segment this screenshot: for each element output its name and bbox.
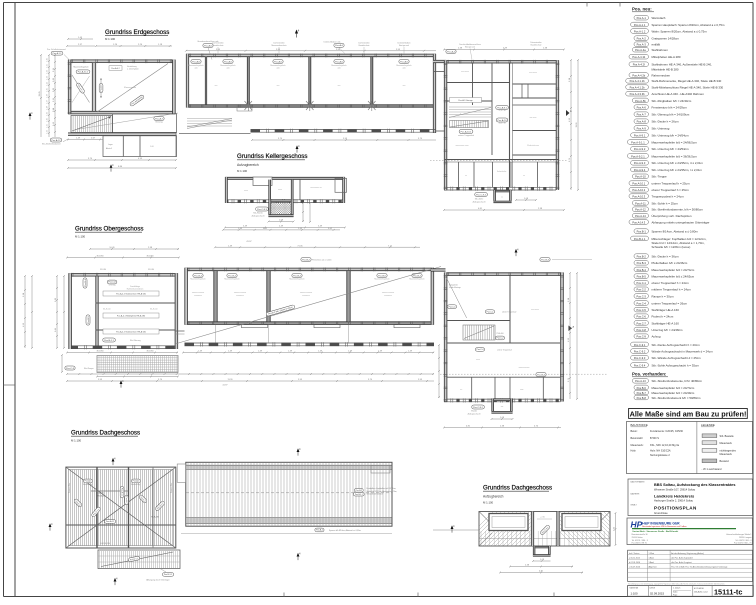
svg-text:Aufzugbereich: Aufzugbereich xyxy=(483,495,504,499)
OG long diagonal xyxy=(175,267,441,345)
ED band separator wall xyxy=(309,57,312,105)
svg-text:Pos.A-5: Pos.A-5 xyxy=(204,44,213,47)
svg-text:Pos.C-3: Pos.C-3 xyxy=(66,368,75,370)
svg-text:Grundriss Erdgeschoss: Grundriss Erdgeschoss xyxy=(105,29,169,36)
svg-text:Pos.B-2: Pos.B-2 xyxy=(302,259,311,261)
svg-text:Walm: Sparren 8/20cm, Abstand: Walm: Sparren 8/20cm, Abstand a ≤ 0,75m xyxy=(652,29,708,33)
svg-text:Stb.-Treppe: Stb.-Treppe xyxy=(652,175,668,179)
svg-text:Mauerwerkspfeiler b/d = 24/49c: Mauerwerkspfeiler b/d = 24/49cm xyxy=(652,391,695,395)
svg-text:Pos.A-11: Pos.A-11 xyxy=(635,201,646,205)
svg-text:Schwelle b/h 12/8cm: Schwelle b/h 12/8cm xyxy=(367,494,384,496)
ED dims right of shaft xyxy=(516,199,536,201)
svg-text:PS.A 160: PS.A 160 xyxy=(496,332,503,335)
svg-text:Pos.A-9: Pos.A-9 xyxy=(637,126,647,130)
svg-text:Pos.A-9.1: Pos.A-9.1 xyxy=(634,134,646,138)
svg-text:Pos.A-2: Pos.A-2 xyxy=(125,497,128,504)
north arrows DG band xyxy=(297,448,302,455)
svg-text:Pos.A-9.1: Pos.A-9.1 xyxy=(497,106,507,109)
svg-text:Tel. 05191 / 986 - 3: Tel. 05191 / 986 - 3 xyxy=(632,540,648,542)
svg-text:Pos.A-4.1.1: Pos.A-4.1.1 xyxy=(78,71,89,74)
DG2 right dim xyxy=(615,513,617,545)
svg-text:Pos.A-3: Pos.A-3 xyxy=(637,43,647,47)
svg-text:Pos.A-1.1: Pos.A-1.1 xyxy=(120,488,123,496)
svg-text:Sparren-Rtg.: Sparren-Rtg. xyxy=(68,482,71,493)
svg-text:Pos.A-8: Pos.A-8 xyxy=(637,120,647,124)
svg-text:Stb.-Streifenfundament: Stb.-Streifenfundament xyxy=(42,143,61,146)
svg-text:xxxxxxxxx: xxxxxxxxx xyxy=(194,295,202,297)
svg-text:oberer Treppenlauf h = 24cm: oberer Treppenlauf h = 24cm xyxy=(652,281,690,285)
svg-text:Mauerwerksgefach: Mauerwerksgefach xyxy=(74,67,89,69)
svg-text:Anschluss HE-A 340 - HE-A340 R: Anschluss HE-A 340 - HE-A340 Rahmen xyxy=(652,92,705,96)
svg-text:unterer Treppenlauf: unterer Treppenlauf xyxy=(497,348,512,351)
svg-text:Pos.A-10.3: Pos.A-10.3 xyxy=(632,195,645,199)
svg-text:35.8.80: 35.8.80 xyxy=(100,269,106,271)
svg-text:Stb.-Wände Aufzugsschacht d =: Stb.-Wände Aufzugsschacht d = 25cm xyxy=(652,356,702,360)
svg-text:xxx xxxx: xxx xxxx xyxy=(530,117,537,119)
svg-text:xxxxxxx xxxxxxx: xxxxxxx xxxxxxx xyxy=(192,292,204,294)
svg-text:xxxxxxxxxx xx: xxxxxxxxxx xx xyxy=(310,187,321,189)
svg-text:Pos.C-9.2: Pos.C-9.2 xyxy=(473,407,484,409)
svg-text:1.21: 1.21 xyxy=(47,124,49,128)
svg-text:Schwelle b/h = 12/8cm (loose): Schwelle b/h = 12/8cm (loose) xyxy=(652,245,691,249)
svg-text:M 1:100: M 1:100 xyxy=(105,37,116,41)
svg-text:Stb.-Decke Aufzugsschacht h =: Stb.-Decke Aufzugsschacht h = 20cm xyxy=(652,343,701,347)
svg-text:Pos.C-2: Pos.C-2 xyxy=(637,288,647,292)
svg-text:Pos.B-2: Pos.B-2 xyxy=(637,255,647,259)
KG dims xyxy=(269,221,294,223)
svg-text:Stb.-Unterzug: Stb.-Unterzug xyxy=(652,126,670,130)
svg-text:Mauerwerk: Mauerwerk xyxy=(720,442,733,445)
svg-text:Aufzug: Aufzug xyxy=(652,335,661,339)
svg-text:1.25: 1.25 xyxy=(47,88,49,92)
north arrow left margin ED xyxy=(29,112,34,119)
ED left block outer walls xyxy=(68,60,176,63)
svg-text:29396 Langein: 29396 Langein xyxy=(739,537,752,539)
svg-text:Aufzugbereich: Aufzugbereich xyxy=(237,163,259,167)
svg-text:Pos.A-5: Pos.A-5 xyxy=(400,60,409,63)
svg-text:Stb.-Überzug: Stb.-Überzug xyxy=(130,339,141,342)
svg-text:für die Montage: für die Montage xyxy=(449,286,461,289)
svg-text:Dämmstreifen: Dämmstreifen xyxy=(530,41,541,44)
OG far left dim chain xyxy=(24,276,26,348)
svg-text:Pos.A-4: Pos.A-4 xyxy=(447,50,456,53)
svg-text:1.HO.B-280: 1.HO.B-280 xyxy=(96,495,106,497)
svg-text:Pos.A-9.2: Pos.A-9.2 xyxy=(634,147,646,151)
svg-text:Art der Änderung / Ergänzung (: Art der Änderung / Ergänzung (Anlass) xyxy=(671,552,704,555)
svg-text:1.26: 1.26 xyxy=(47,94,49,98)
svg-text:Mauerwerkspfeiler b/d = 36/36,: Mauerwerkspfeiler b/d = 36/36,5cm xyxy=(652,154,698,158)
svg-text:Pos.A-4.2 Stahlrahmen HE-A 3: Pos.A-4.2 Stahlrahmen HE-A 340 xyxy=(116,293,147,296)
ED staircase xyxy=(71,116,112,133)
svg-text:Pos.A-5b: Pos.A-5b xyxy=(635,99,646,103)
svg-text:Grundriss Dachgeschoss: Grundriss Dachgeschoss xyxy=(71,430,140,437)
svg-text:Stb.-Unterzug b/h = 24/54cm: Stb.-Unterzug b/h = 24/54cm xyxy=(652,134,690,138)
materials box xyxy=(627,422,753,474)
svg-text:INHALT: INHALT xyxy=(631,504,638,507)
svg-text:Pos.B-5: Pos.B-5 xyxy=(637,275,647,279)
svg-text:Pos.A-4.1: Pos.A-4.1 xyxy=(106,520,114,523)
svg-text:Pos.A-4.2f: Pos.A-4.2f xyxy=(633,63,645,67)
svg-text:13.11: 13.11 xyxy=(576,122,578,128)
company box with HP logo xyxy=(627,518,753,545)
DG band dashed centre line xyxy=(186,492,392,494)
north arrow above ED band xyxy=(295,28,300,37)
svg-text:Stb.-Ringbalken b/h = 24/30cm: Stb.-Ringbalken b/h = 24/30cm xyxy=(652,99,692,103)
DG band bottom annotation line xyxy=(181,533,392,535)
svg-text:xxxx: xxxx xyxy=(520,389,524,391)
svg-text:Stb.-Streifenfundament b/h = 5: Stb.-Streifenfundament b/h = 50/80cm xyxy=(652,396,702,400)
DG2 corner hip diagonals xyxy=(480,512,493,525)
svg-text:Bezüge uwk: Bezüge uwk xyxy=(399,45,409,47)
OG dashed section line xyxy=(440,373,607,375)
svg-text:Mauerwerksgefach: Mauerwerksgefach xyxy=(224,279,239,281)
svg-text:1.HO.B.-280: 1.HO.B.-280 xyxy=(100,543,110,545)
svg-text:H&P INGENIEURE GbR: H&P INGENIEURE GbR xyxy=(642,521,680,525)
svg-text:Pos.C-9.2: Pos.C-9.2 xyxy=(634,349,646,353)
OG balcony hatched area xyxy=(97,356,178,373)
svg-text:Mauerwerk: Mauerwerk xyxy=(720,453,733,456)
svg-text:Stb.-Wände: Stb.-Wände xyxy=(253,212,263,215)
svg-text:Bernsteinstraße 30: Bernsteinstraße 30 xyxy=(632,533,648,536)
svg-text:Pos. Schallschutzwand: Pos. Schallschutzwand xyxy=(47,48,65,51)
svg-text:Pos.C-4: Pos.C-4 xyxy=(477,349,484,351)
svg-text:35.8.80: 35.8.80 xyxy=(148,269,154,271)
svg-text:Pos.C-8: Pos.C-8 xyxy=(108,282,116,284)
svg-text:Rahmenecken: Rahmenecken xyxy=(652,73,671,77)
svg-text:Sparren b/h 8/14cm, Abstand a: Sparren b/h 8/14cm, Abstand a ≤ 0,80m xyxy=(329,529,361,532)
svg-text:B 500 S: B 500 S xyxy=(650,437,659,440)
svg-text:Sparren Hauptdach: Sparren 8/2: Sparren Hauptdach: Sparren 8/20cm, Absta… xyxy=(652,23,726,27)
svg-text:o. Dämmplatte: o. Dämmplatte xyxy=(127,68,139,71)
svg-text:Pos.B-4: Pos.B-4 xyxy=(228,275,237,277)
OG left dims xyxy=(56,276,58,348)
DG band corner detail xyxy=(371,466,390,474)
svg-text:Sparren 8/14cm, Abstand a ≤ 0,: Sparren 8/14cm, Abstand a ≤ 0,80m xyxy=(652,230,699,234)
north arrows DG xyxy=(49,523,54,530)
svg-text:35.8.80: 35.8.80 xyxy=(97,256,105,258)
section arrow A right xyxy=(566,110,570,116)
svg-text:Pos.A-5: Pos.A-5 xyxy=(224,60,233,63)
svg-text:Mittelstiele HE-B 280: Mittelstiele HE-B 280 xyxy=(652,68,679,72)
svg-text:Werkstattraum: Werkstattraum xyxy=(527,144,539,147)
svg-text:Fundamente: C20/25, C25/30: Fundamente: C20/25, C25/30 xyxy=(650,430,684,433)
svg-text:Mauerwerkspfeiler b/d = 24/74c: Mauerwerkspfeiler b/d = 24/74cm xyxy=(652,386,695,390)
svg-text:Pos.A-1: Pos.A-1 xyxy=(637,16,647,20)
svg-text:Bauteilschutz: Bauteilschutz xyxy=(359,44,370,47)
ED band separator wall xyxy=(371,57,374,105)
DG band left connector xyxy=(177,464,186,482)
svg-text:Pos.B-7: Pos.B-7 xyxy=(637,391,647,395)
svg-text:Betonstahl:: Betonstahl: xyxy=(631,437,644,440)
svg-text:xxx xxxxx: xxx xxxxx xyxy=(531,309,539,311)
svg-text:Stb.-Sohle: Stb.-Sohle xyxy=(475,197,483,200)
svg-text:HE-A-280: HE-A-280 xyxy=(151,516,159,519)
svg-text:b 07.01.2016: b 07.01.2016 xyxy=(629,562,640,564)
svg-text:Stb.-Unterzug b/h ≤ 24/35cm, 4: Stb.-Unterzug b/h ≤ 24/35cm, 4 ≤ 2,01m xyxy=(652,161,704,165)
svg-text:41.97: 41.97 xyxy=(222,385,228,387)
green divider bar xyxy=(632,528,736,530)
svg-text:xxx: xxx xyxy=(403,85,406,87)
svg-text:35.8.80: 35.8.80 xyxy=(147,351,155,353)
svg-text:Pos.A-5: Pos.A-5 xyxy=(85,480,92,483)
svg-text:Pos.A-10: Pos.A-10 xyxy=(498,119,508,122)
svg-text:Pos.C-1: Pos.C-1 xyxy=(637,281,647,285)
ED corridor ramp detail xyxy=(187,118,232,120)
svg-text:uwk: uwk xyxy=(276,67,279,69)
ED dims above left block xyxy=(68,38,93,40)
page frame xyxy=(4,2,754,4)
svg-text:uwk: uwk xyxy=(337,67,340,69)
svg-text:Mauerwerkspfeiler b/d = 24/74c: Mauerwerkspfeiler b/d = 24/74cm xyxy=(652,268,695,272)
svg-text:Pos.B-4: Pos.B-4 xyxy=(637,268,647,272)
DG right band outer xyxy=(186,462,392,526)
svg-text:02.09.2015: 02.09.2015 xyxy=(650,591,664,595)
svg-text:Winsener Straße 107, 29614 Sol: Winsener Straße 107, 29614 Soltau xyxy=(654,487,696,491)
OG left block boxed labels xyxy=(103,291,159,296)
KG top notch xyxy=(253,176,272,186)
svg-text:41.97: 41.97 xyxy=(246,241,252,243)
svg-text:35.8.80: 35.8.80 xyxy=(147,256,155,258)
ED right block top dim xyxy=(444,49,564,51)
DG2 plan xyxy=(479,512,610,547)
legend swatches xyxy=(702,434,717,438)
svg-text:Pos.A-1.1: Pos.A-1.1 xyxy=(634,23,646,27)
ED band separator wall xyxy=(247,57,250,105)
svg-text:Stb.-Sohle h = 25cm: Stb.-Sohle h = 25cm xyxy=(652,201,679,205)
DG roof tags xyxy=(73,498,82,507)
svg-text:35.-B.-50: 35.-B.-50 xyxy=(103,308,110,310)
ED elevator shaft below right block xyxy=(494,190,512,192)
svg-text:xxx: xxx xyxy=(338,85,341,87)
svg-text:alle Pos. Aufst.3 ergänzt: alle Pos. Aufst.3 ergänzt xyxy=(671,561,692,564)
svg-text:x.x: x.x xyxy=(460,389,462,391)
svg-text:1.22: 1.22 xyxy=(47,70,49,74)
svg-text:16,5 / 16: 16,5 / 16 xyxy=(499,123,506,125)
svg-text:Mauerwerk:: Mauerwerk: xyxy=(631,444,644,447)
svg-text:Mauerwerksgefach: Mauerwerksgefach xyxy=(374,279,389,281)
bottom title row with plan number xyxy=(628,586,754,597)
svg-text:Pos.B-1: Pos.B-1 xyxy=(316,530,323,532)
svg-text:Landkreis Heidekreis: Landkreis Heidekreis xyxy=(654,494,695,499)
OG top-left room diagonal xyxy=(447,278,467,318)
svg-text:+ 2.15: + 2.15 xyxy=(540,517,545,519)
svg-text:mittlerer Treppenlauf h = 24cm: mittlerer Treppenlauf h = 24cm xyxy=(652,288,692,292)
svg-text:Stb.-Decke h = 26cm: Stb.-Decke h = 26cm xyxy=(652,120,680,124)
svg-text:c 05.07.2016: c 05.07.2016 xyxy=(629,566,640,568)
ED right block bottom rooms xyxy=(444,159,559,161)
svg-text:alle Pos. Aufst.3 geändert: alle Pos. Aufst.3 geändert xyxy=(671,556,693,559)
north arrow KG xyxy=(296,145,301,152)
svg-text:Pos.A-9 Garage: Pos.A-9 Garage xyxy=(458,99,473,102)
svg-text:oberer Treppenlauf h = 25cm: oberer Treppenlauf h = 25cm xyxy=(652,188,690,192)
svg-text:Pos.C-3: Pos.C-3 xyxy=(637,294,647,298)
svg-text:M 1:100: M 1:100 xyxy=(237,169,248,173)
svg-text:xx.xx: xx.xx xyxy=(244,190,248,192)
svg-text:35.-B.-50: 35.-B.-50 xyxy=(150,308,157,310)
svg-text:Pos.B-1.1: Pos.B-1.1 xyxy=(104,340,114,342)
svg-text:1.29: 1.29 xyxy=(47,112,49,116)
svg-text:1.20: 1.20 xyxy=(47,118,49,122)
svg-text:Bauteilschutz: Bauteilschutz xyxy=(213,44,224,47)
DG band rafters xyxy=(188,463,389,526)
svg-text:Nutzungsklasse 2: Nutzungsklasse 2 xyxy=(650,454,670,457)
svg-text:Bauteilschutz: Bauteilschutz xyxy=(531,44,542,47)
north arrow ED annex xyxy=(110,164,115,171)
svg-text:Stb.-Unterzug b/h ≤ 24/35cm, l: Stb.-Unterzug b/h ≤ 24/35cm, l ≤ 2,01m xyxy=(652,168,703,172)
svg-text:BBS Soltau, Aufstockung des Kl: BBS Soltau, Aufstockung des Klassentrakt… xyxy=(654,483,736,487)
svg-text:Stb.-Decke h = 36cm: Stb.-Decke h = 36cm xyxy=(652,255,680,259)
svg-text:Pos.A-7: Pos.A-7 xyxy=(155,117,164,120)
svg-text:Pos.A-10.1: Pos.A-10.1 xyxy=(632,182,645,186)
svg-text:Stb.-Unterzug b/h = 24/54cm: Stb.-Unterzug b/h = 24/54cm xyxy=(652,147,690,151)
svg-text:Holz:: Holz: xyxy=(631,450,637,453)
svg-text:Unterzug b/h = 24/48cm: Unterzug b/h = 24/48cm xyxy=(652,328,684,332)
svg-text:BAUVORHABEN: BAUVORHABEN xyxy=(631,481,645,484)
svg-text:uwk: uwk xyxy=(402,67,405,69)
svg-text:Stahlrahmen: Stahlrahmen xyxy=(652,48,669,52)
svg-text:Pos.B-4: Pos.B-4 xyxy=(194,275,203,277)
svg-text:Pos.A-10: Pos.A-10 xyxy=(635,175,646,179)
svg-text:Allgemein: Allgemein xyxy=(649,565,657,568)
svg-text:1.06: 1.06 xyxy=(150,146,154,148)
svg-text:10.49: 10.49 xyxy=(109,247,115,249)
OG left block bottom dim xyxy=(67,352,178,354)
DG heavy walls under roof xyxy=(96,467,98,548)
svg-text:29614 Soltau: 29614 Soltau xyxy=(632,536,643,539)
svg-text:Pfettenlinie uwk ± 0,00m: Pfettenlinie uwk ± 0,00m xyxy=(312,258,332,261)
svg-text:Pos.A-2: Pos.A-2 xyxy=(637,37,647,41)
OG right block stair xyxy=(463,325,495,340)
OG band separator xyxy=(267,271,271,322)
svg-text:1.Änd.: 1.Änd. xyxy=(649,556,655,559)
svg-text:Sparren-Rtg.: Sparren-Rtg. xyxy=(170,482,173,493)
ED annex rooms bottom-left xyxy=(103,136,177,157)
svg-text:Pos.B-3: Pos.B-3 xyxy=(537,374,546,376)
svg-text:uwk: uwk xyxy=(226,67,229,69)
svg-text:1.20: 1.20 xyxy=(47,58,49,62)
svg-text:156.Aufst.1 und: 156.Aufst.1 und xyxy=(694,591,707,594)
svg-text:11.99: 11.99 xyxy=(227,379,233,381)
DG2 dormer left xyxy=(489,514,528,531)
svg-text:Pos.B-3: Pos.B-3 xyxy=(541,259,550,261)
north arrow OG xyxy=(515,249,520,256)
svg-text:a 05.11.2015: a 05.11.2015 xyxy=(629,557,640,559)
svg-text:Pos.A-12: Pos.A-12 xyxy=(52,139,62,142)
svg-text:Pos.A-1.2: Pos.A-1.2 xyxy=(53,52,63,55)
OG top dimension rows xyxy=(223,229,340,231)
OG dim rows below band xyxy=(183,352,434,354)
svg-text:Pos.A-14.3: Pos.A-14.3 xyxy=(632,220,645,224)
DG2 shaft below xyxy=(533,546,551,548)
svg-text:Aufzugsschacht: Aufzugsschacht xyxy=(252,215,265,218)
svg-text:unterer Treppenlauf = 26cm: unterer Treppenlauf = 26cm xyxy=(652,301,688,305)
OG band window bays xyxy=(242,325,268,328)
ED right block room texts/tags xyxy=(450,98,482,103)
svg-text:Aufzugsschacht: Aufzugsschacht xyxy=(473,200,486,203)
svg-text:Wände: Wände xyxy=(471,411,477,413)
svg-text:xxx: xxx xyxy=(277,85,280,87)
DG2 hatch right xyxy=(540,512,666,546)
svg-text:Pos.C-9.4: Pos.C-9.4 xyxy=(634,363,646,367)
svg-text:Pos.C-9: Pos.C-9 xyxy=(637,335,647,339)
svg-text:Stb.-Sohle Aufzugsschacht h =: Stb.-Sohle Aufzugsschacht h = 35cm xyxy=(652,363,700,367)
svg-text:Pos.A-10.1: Pos.A-10.1 xyxy=(461,130,473,133)
svg-text:Gustav-Meck - Stemmener Straße: Gustav-Meck - Stemmener Straße - Bad Erl… xyxy=(632,530,678,533)
svg-text:Pos.A-9.2.1: Pos.A-9.2.1 xyxy=(631,154,645,158)
svg-text:Beratende Ingenieure VBI für B: Beratende Ingenieure VBI für Bauwesen un… xyxy=(642,525,686,528)
svg-text:xxx xxxxx: xxx xxxxx xyxy=(529,72,537,74)
svg-text:Pos.B-1: Pos.B-1 xyxy=(637,230,647,234)
svg-text:11.45: 11.45 xyxy=(39,91,41,97)
svg-text:Überprüfung vorh. Dachspitzen: Überprüfung vorh. Dachspitzen xyxy=(652,214,692,218)
section arrow A xyxy=(569,326,573,332)
svg-text:Fenstersturz b/h = 24/29cm: Fenstersturz b/h = 24/29cm xyxy=(652,106,688,110)
OG shaft dims xyxy=(492,418,513,420)
svg-text:Pos.A-7: Pos.A-7 xyxy=(637,113,647,117)
svg-text:Pos.B-5: Pos.B-5 xyxy=(88,315,90,324)
svg-text:xx: xx xyxy=(465,175,467,177)
svg-text:xxxxxxxxxx xxxx: xxxxxxxxxx xxxx xyxy=(455,145,468,147)
svg-text:Pos.A-9.3: Pos.A-9.3 xyxy=(634,161,646,165)
svg-text:Bezüge uwk: Bezüge uwk xyxy=(465,47,475,49)
svg-text:Überzug: Überzug xyxy=(155,121,162,124)
svg-text:Abfangung mittels untergebaute: Abfangung mittels untergebauten Gittertr… xyxy=(652,220,710,224)
svg-text:Pos.A-4a: Pos.A-4a xyxy=(635,48,646,52)
svg-text:1.22: 1.22 xyxy=(47,130,49,134)
KG right notch xyxy=(335,178,347,192)
svg-text:17,5 / 16: 17,5 / 16 xyxy=(499,110,506,112)
DG2 leader line xyxy=(433,529,479,531)
svg-text:Podest h = 24cm: Podest h = 24cm xyxy=(652,315,674,319)
svg-text:Pos. vorhanden:: Pos. vorhanden: xyxy=(632,372,667,377)
svg-text:BAUHERR: BAUHERR xyxy=(631,493,640,496)
svg-text:Pos.A-4.2b: Pos.A-4.2b xyxy=(632,73,645,77)
svg-text:Durchrichtbalkenanschluss: Durchrichtbalkenanschluss xyxy=(459,43,481,46)
KG elevator shaft xyxy=(269,200,294,203)
OG band corridor bottom xyxy=(185,342,435,344)
svg-text:Abstell: Abstell xyxy=(106,147,112,150)
svg-text:Harburger Straße 2, 29614 Solt: Harburger Straße 2, 29614 Soltau xyxy=(654,499,694,503)
DG rafters xyxy=(68,470,172,546)
svg-text:Pos.A-4.3.3b: Pos.A-4.3.3b xyxy=(630,92,646,96)
svg-text:oberer Treppenlauf: oberer Treppenlauf xyxy=(502,311,517,314)
svg-text:Firstbalken: Kopfbalken b/d 12: Firstbalken: Kopfbalken b/d 12/12cm, xyxy=(367,487,397,490)
svg-text:LEGENDE: LEGENDE xyxy=(701,423,715,427)
svg-text:Pos.A-4.2: Pos.A-4.2 xyxy=(111,67,119,70)
DG band annotation tags xyxy=(354,489,363,493)
svg-text:Rahmenkonstruktion: Rahmenkonstruktion xyxy=(127,288,143,291)
KG interior walls xyxy=(269,180,271,200)
svg-text:xx: xx xyxy=(501,197,503,199)
svg-text:Stb.-Überzug b/h = 24/109cm: Stb.-Überzug b/h = 24/109cm xyxy=(652,113,690,117)
svg-text:M 1:100: M 1:100 xyxy=(71,439,82,443)
svg-text:- I/II 1-Leichtwand: - I/II 1-Leichtwand xyxy=(702,468,722,471)
svg-text:Pos.B-4: Pos.B-4 xyxy=(413,275,422,277)
svg-text:Mauerwerksgefach: Mauerwerksgefach xyxy=(289,279,304,281)
svg-text:Pos.A-5: Pos.A-5 xyxy=(335,60,344,63)
DG roof plan outer xyxy=(66,467,176,548)
svg-text:Pos.A-9.1.1: Pos.A-9.1.1 xyxy=(631,140,645,144)
ED right block outer xyxy=(444,60,559,63)
svg-text:Index: Index xyxy=(673,591,677,593)
DG2 hatch left xyxy=(459,512,585,546)
DG annex below xyxy=(98,550,180,569)
svg-text:Bestand: Bestand xyxy=(720,460,730,463)
svg-text:Pos.C-5: Pos.C-5 xyxy=(637,308,647,312)
svg-text:Firstpfette: Firstpfette xyxy=(96,492,104,495)
svg-text:Stb. Bauteile: Stb. Bauteile xyxy=(720,435,735,438)
svg-text:Pos.A-5: Pos.A-5 xyxy=(133,480,140,483)
